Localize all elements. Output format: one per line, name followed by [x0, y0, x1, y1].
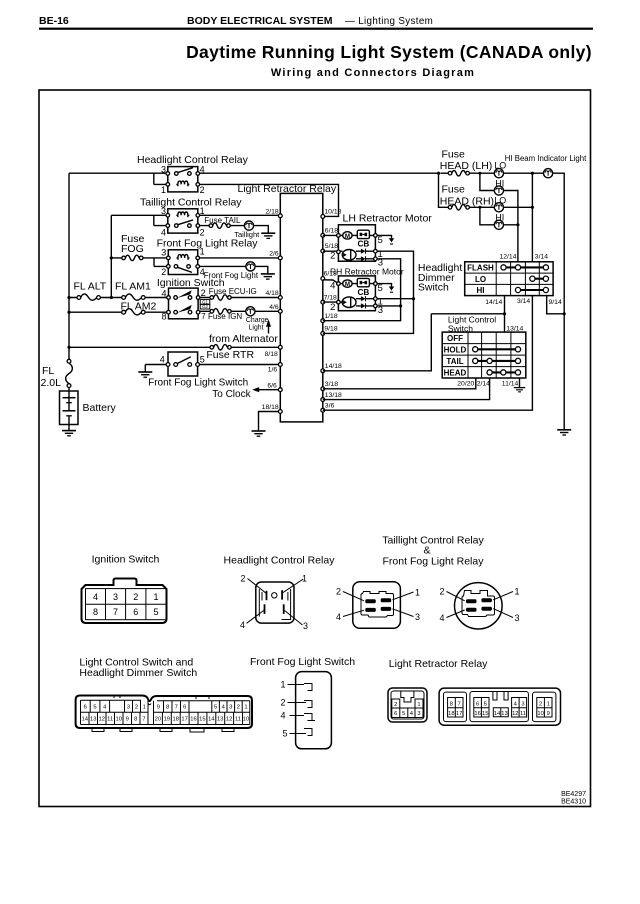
- svg-text:FLASH: FLASH: [467, 264, 494, 273]
- svg-text:BODY ELECTRICAL SYSTEM: BODY ELECTRICAL SYSTEM: [187, 15, 333, 27]
- svg-text:Headlight Control Relay: Headlight Control Relay: [224, 555, 336, 567]
- svg-text:Light: Light: [249, 325, 264, 332]
- svg-text:M: M: [345, 281, 350, 288]
- svg-text:Ignition Switch: Ignition Switch: [92, 554, 160, 566]
- svg-text:4: 4: [336, 612, 341, 622]
- svg-text:1: 1: [153, 592, 158, 602]
- svg-text:1: 1: [280, 680, 285, 690]
- svg-text:BE-16: BE-16: [39, 15, 69, 27]
- svg-text:8/18: 8/18: [265, 351, 278, 358]
- svg-text:2: 2: [133, 592, 138, 602]
- svg-text:Light Retractor Relay: Light Retractor Relay: [238, 183, 337, 195]
- svg-text:4/6: 4/6: [269, 304, 279, 311]
- svg-text:2: 2: [439, 587, 444, 597]
- svg-text:9: 9: [126, 717, 129, 723]
- svg-text:To Clock: To Clock: [212, 389, 251, 400]
- svg-text:3/14: 3/14: [517, 298, 530, 305]
- svg-text:CB: CB: [358, 288, 370, 297]
- svg-text:4: 4: [161, 227, 166, 237]
- svg-text:5: 5: [484, 701, 487, 707]
- svg-text:1: 1: [415, 588, 420, 598]
- svg-text:1: 1: [161, 185, 166, 195]
- svg-text:13: 13: [217, 717, 223, 723]
- svg-text:13: 13: [501, 711, 507, 717]
- svg-text:CB: CB: [358, 239, 370, 248]
- svg-text:8: 8: [161, 311, 166, 321]
- svg-text:13: 13: [90, 717, 96, 723]
- svg-text:2: 2: [394, 702, 397, 708]
- svg-text:3: 3: [415, 612, 420, 622]
- svg-text:13/18: 13/18: [325, 392, 342, 399]
- svg-text:RH Retractor Motor: RH Retractor Motor: [330, 266, 404, 276]
- svg-text:20/20: 20/20: [457, 381, 474, 388]
- svg-text:2: 2: [200, 227, 205, 237]
- svg-text:4: 4: [161, 288, 166, 298]
- svg-text:6/6: 6/6: [267, 382, 277, 389]
- svg-text:5/18: 5/18: [325, 243, 338, 250]
- svg-text:7: 7: [457, 701, 460, 707]
- svg-text:Battery: Battery: [83, 402, 117, 414]
- svg-text:2: 2: [237, 705, 240, 711]
- svg-text:5: 5: [153, 607, 158, 617]
- svg-text:3: 3: [417, 711, 420, 717]
- svg-text:2/14: 2/14: [477, 381, 490, 388]
- svg-text:HOLD: HOLD: [444, 345, 467, 354]
- svg-text:10: 10: [243, 717, 249, 723]
- svg-text:2: 2: [330, 302, 335, 313]
- svg-text:15: 15: [482, 711, 488, 717]
- svg-text:3: 3: [229, 705, 232, 711]
- svg-text:4: 4: [103, 705, 107, 711]
- svg-text:4: 4: [280, 711, 285, 721]
- svg-text:5: 5: [214, 705, 217, 711]
- svg-text:14: 14: [81, 717, 88, 723]
- svg-text:HI Beam Indicator Light: HI Beam Indicator Light: [505, 154, 587, 163]
- svg-text:LH Retractor Motor: LH Retractor Motor: [343, 213, 433, 225]
- svg-text:16: 16: [474, 711, 480, 717]
- svg-text:10: 10: [537, 711, 543, 717]
- svg-text:4: 4: [240, 620, 245, 630]
- svg-text:FOG: FOG: [121, 243, 144, 255]
- svg-text:HEAD (RH): HEAD (RH): [440, 196, 494, 208]
- svg-text:14: 14: [494, 711, 501, 717]
- svg-text:2: 2: [240, 574, 245, 584]
- svg-text:1: 1: [302, 574, 307, 584]
- svg-text:17: 17: [181, 717, 187, 723]
- svg-text:3/18: 3/18: [325, 381, 338, 388]
- svg-text:4: 4: [410, 711, 414, 717]
- svg-text:5: 5: [93, 705, 96, 711]
- svg-text:6: 6: [476, 701, 479, 707]
- svg-text:15: 15: [199, 717, 205, 723]
- svg-text:11/14: 11/14: [502, 381, 519, 388]
- svg-text:18: 18: [448, 711, 454, 717]
- svg-text:2/6: 2/6: [269, 251, 279, 258]
- svg-text:BE4297: BE4297: [561, 791, 586, 798]
- svg-text:7: 7: [113, 607, 118, 617]
- svg-text:3/6: 3/6: [325, 403, 335, 410]
- svg-text:M: M: [345, 233, 350, 240]
- svg-text:6: 6: [84, 705, 87, 711]
- svg-text:5: 5: [378, 283, 383, 294]
- svg-text:12: 12: [98, 717, 104, 723]
- svg-text:Front Fog Light Switch: Front Fog Light Switch: [250, 656, 355, 668]
- svg-text:10: 10: [115, 717, 121, 723]
- svg-text:8: 8: [93, 607, 98, 617]
- svg-text:12/14: 12/14: [499, 253, 516, 260]
- svg-text:HI: HI: [495, 213, 504, 223]
- svg-text:2: 2: [161, 267, 166, 277]
- svg-text:11: 11: [235, 717, 241, 723]
- svg-text:FL: FL: [42, 365, 54, 377]
- svg-text:8: 8: [450, 701, 453, 707]
- svg-text:Fuse: Fuse: [442, 183, 466, 195]
- svg-text:18/18: 18/18: [262, 404, 279, 411]
- svg-text:1: 1: [515, 587, 520, 597]
- svg-text:2: 2: [539, 701, 542, 707]
- svg-text:4/18: 4/18: [265, 290, 278, 297]
- svg-text:LO: LO: [475, 275, 486, 284]
- svg-text:OFF: OFF: [447, 334, 463, 343]
- svg-text:5: 5: [200, 355, 205, 365]
- svg-text:2/18: 2/18: [265, 209, 278, 216]
- svg-text:2: 2: [330, 251, 335, 262]
- svg-text:6: 6: [133, 607, 138, 617]
- svg-text:Front Fog Light: Front Fog Light: [204, 271, 259, 280]
- svg-text:7: 7: [175, 705, 178, 711]
- svg-text:3: 3: [378, 305, 383, 316]
- svg-text:3: 3: [113, 592, 118, 602]
- svg-text:1/6: 1/6: [268, 366, 278, 373]
- svg-text:5: 5: [378, 235, 383, 246]
- svg-text:1: 1: [547, 701, 550, 707]
- svg-text:Taillight Control Relay: Taillight Control Relay: [382, 535, 484, 547]
- svg-text:18: 18: [172, 717, 178, 723]
- svg-text:11: 11: [107, 717, 113, 723]
- svg-text:11: 11: [520, 711, 526, 717]
- svg-text:Switch: Switch: [418, 282, 449, 294]
- svg-text:12: 12: [226, 717, 232, 723]
- svg-text:BE4310: BE4310: [561, 799, 586, 806]
- svg-text:14/14: 14/14: [485, 299, 502, 306]
- svg-text:Headlight Control Relay: Headlight Control Relay: [137, 154, 249, 166]
- svg-text:Taillight: Taillight: [234, 230, 260, 239]
- svg-text:8: 8: [166, 705, 169, 711]
- svg-text:1: 1: [244, 705, 247, 711]
- svg-text:Front Fog Light Relay: Front Fog Light Relay: [383, 556, 485, 568]
- svg-text:5: 5: [402, 711, 405, 717]
- svg-text:7/18: 7/18: [324, 294, 337, 301]
- svg-text:17: 17: [456, 711, 462, 717]
- svg-text:FL AM1: FL AM1: [115, 280, 151, 292]
- svg-text:5: 5: [282, 729, 287, 739]
- svg-text:1/18: 1/18: [324, 313, 337, 320]
- svg-text:7 Fuse IGN: 7 Fuse IGN: [201, 312, 242, 321]
- svg-text:HI: HI: [495, 178, 504, 188]
- svg-text:4: 4: [514, 701, 518, 707]
- svg-text:3: 3: [515, 613, 520, 623]
- svg-text:8: 8: [134, 717, 137, 723]
- svg-text:2: 2: [336, 587, 341, 597]
- svg-text:2: 2: [135, 705, 138, 711]
- svg-text:Front Fog Light Switch: Front Fog Light Switch: [148, 377, 248, 388]
- svg-text:9/18: 9/18: [324, 326, 337, 333]
- svg-text:1: 1: [417, 702, 420, 708]
- svg-text:10/18: 10/18: [324, 208, 341, 215]
- svg-text:Fuse TAIL: Fuse TAIL: [204, 216, 241, 225]
- svg-text:19: 19: [164, 717, 170, 723]
- svg-text:3: 3: [521, 701, 524, 707]
- svg-text:TAIL: TAIL: [446, 357, 463, 366]
- svg-text:Daytime Running Light System (: Daytime Running Light System (CANADA onl…: [186, 42, 592, 62]
- svg-text:1: 1: [143, 705, 146, 711]
- svg-text:2: 2: [200, 185, 205, 195]
- svg-text:Charge: Charge: [246, 317, 269, 324]
- svg-text:4: 4: [93, 592, 98, 602]
- svg-text:14/18: 14/18: [325, 363, 342, 370]
- svg-text:G2: G2: [202, 304, 208, 309]
- svg-text:2: 2: [280, 698, 285, 708]
- svg-text:LO: LO: [494, 196, 506, 206]
- svg-text:Taillight Control Relay: Taillight Control Relay: [140, 196, 242, 208]
- svg-text:Front Fog Light Relay: Front Fog Light Relay: [157, 237, 259, 249]
- svg-text:16: 16: [190, 717, 196, 723]
- svg-text:2: 2: [201, 288, 206, 298]
- svg-text:Light Retractor Relay: Light Retractor Relay: [389, 658, 488, 670]
- svg-text:6/18: 6/18: [325, 227, 338, 234]
- svg-text:4: 4: [222, 705, 226, 711]
- svg-text:Fuse RTR: Fuse RTR: [206, 349, 254, 361]
- svg-text:9: 9: [547, 711, 550, 717]
- svg-text:from Alternator: from Alternator: [209, 333, 278, 345]
- svg-text:4: 4: [160, 354, 165, 364]
- svg-text:Fuse ECU-IG: Fuse ECU-IG: [209, 287, 257, 296]
- svg-text:3: 3: [303, 621, 308, 631]
- svg-text:6: 6: [183, 705, 186, 711]
- svg-text:6: 6: [394, 711, 397, 717]
- svg-text:FL ALT: FL ALT: [74, 280, 107, 292]
- svg-text:— Lighting System: — Lighting System: [345, 16, 433, 27]
- svg-text:9: 9: [157, 705, 160, 711]
- svg-text:3/14: 3/14: [535, 253, 548, 260]
- svg-text:2.0L: 2.0L: [41, 377, 62, 389]
- svg-text:20: 20: [155, 717, 161, 723]
- svg-text:HEAD: HEAD: [444, 368, 467, 377]
- svg-text:HI: HI: [477, 286, 485, 295]
- svg-text:3: 3: [127, 705, 130, 711]
- svg-text:FL AM2: FL AM2: [121, 301, 157, 313]
- svg-text:4: 4: [330, 281, 335, 292]
- svg-text:14: 14: [208, 717, 215, 723]
- svg-text:HEAD (LH): HEAD (LH): [440, 160, 493, 172]
- svg-text:7: 7: [142, 717, 145, 723]
- svg-text:4: 4: [439, 613, 444, 623]
- svg-text:Wiring and Connectors Diagram: Wiring and Connectors Diagram: [271, 67, 475, 79]
- svg-text:9/14: 9/14: [549, 299, 562, 306]
- svg-text:Headlight Dimmer Switch: Headlight Dimmer Switch: [79, 667, 197, 679]
- svg-text:Fuse: Fuse: [442, 148, 466, 160]
- svg-text:12: 12: [512, 711, 518, 717]
